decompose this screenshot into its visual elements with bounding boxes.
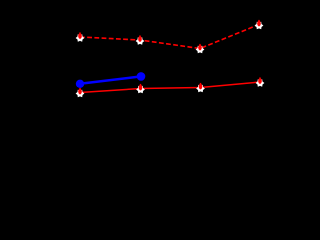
series 1: red dashed line [80, 25, 259, 49]
series 3 marker point 3 [196, 83, 205, 92]
series 1 marker point 2 [136, 35, 145, 44]
series 2 marker point 2 [137, 72, 146, 81]
series 1 marker point 1 [76, 32, 85, 41]
series 3 marker point 1 [76, 88, 85, 97]
series 1 marker point 4 [255, 20, 264, 29]
series 2: blue solid line [80, 76, 141, 83]
series 1 marker point 3 [196, 44, 205, 53]
series 3 marker point 4 [256, 77, 265, 86]
series 3 marker point 2 [136, 84, 145, 93]
series 2 marker point 1 [76, 80, 84, 88]
series 3: red solid line [80, 82, 260, 93]
